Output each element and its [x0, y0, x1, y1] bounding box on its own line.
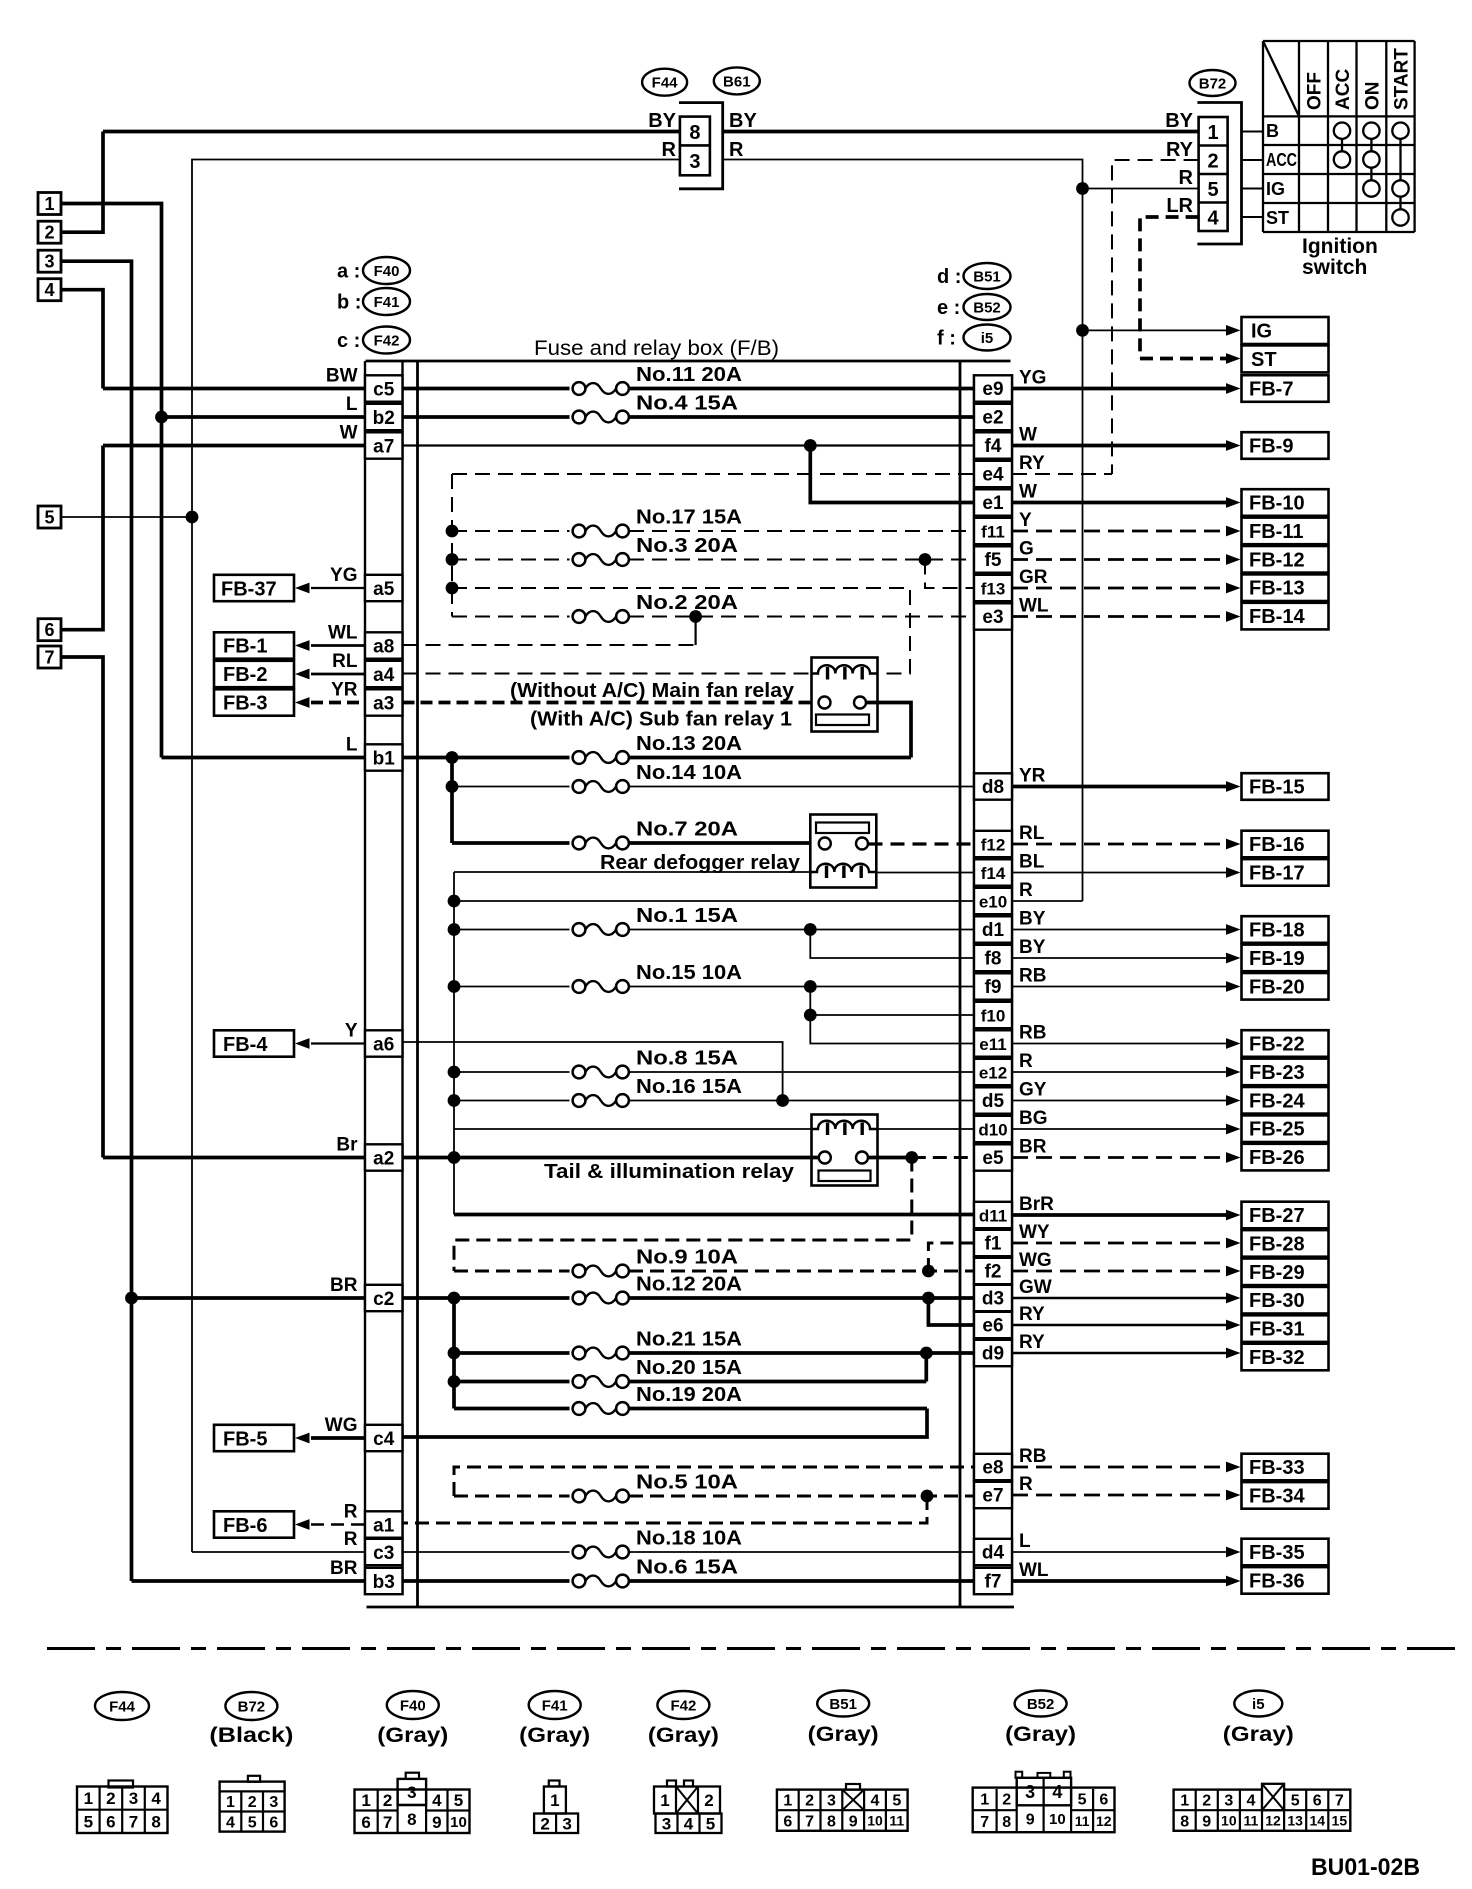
svg-text:a5: a5 — [373, 579, 395, 600]
right strip cell e12 — [974, 1059, 1012, 1085]
left strip cell a8 — [365, 632, 403, 658]
svg-text:Fuse and relay box (F/B): Fuse and relay box (F/B) — [534, 337, 779, 360]
wire a4 to FB-2 — [311, 673, 365, 676]
svg-text:B: B — [1266, 121, 1279, 141]
connector pinout F40 (Gray) — [387, 1691, 439, 1719]
svg-text:d4: d4 — [982, 1543, 1005, 1564]
svg-text:1: 1 — [660, 1791, 669, 1810]
svg-text:d10: d10 — [978, 1121, 1007, 1140]
connector B61 shell bracket — [679, 103, 723, 189]
svg-text:YR: YR — [1019, 766, 1046, 787]
right strip cell d5 — [974, 1087, 1012, 1113]
right strip cell f13 — [974, 575, 1012, 601]
svg-text:BY: BY — [1019, 937, 1046, 958]
right strip cell e8 — [974, 1454, 1012, 1480]
wire to FB box at y=1243 — [1012, 1242, 1228, 1245]
left strip cell a3 — [365, 689, 403, 715]
svg-text:FB-31: FB-31 — [1249, 1319, 1305, 1341]
right strip cell d9 — [974, 1340, 1012, 1366]
node 7 (off-page connector box 7) — [38, 646, 61, 668]
wire defogger coil left stub — [454, 871, 810, 873]
FB-2 box — [214, 661, 294, 687]
wire d11 BrR row — [454, 1213, 974, 1217]
svg-text:f2: f2 — [985, 1262, 1002, 1283]
svg-text:7: 7 — [44, 648, 54, 668]
svg-text:B52: B52 — [1027, 1696, 1055, 1713]
svg-text:4: 4 — [1052, 1782, 1062, 1802]
connector pinout F41 (Gray) — [529, 1691, 581, 1719]
svg-text:4: 4 — [151, 1789, 161, 1808]
svg-text:GW: GW — [1019, 1277, 1052, 1298]
wire to FB box at y=986.5 — [1012, 986, 1228, 988]
svg-text:b1: b1 — [373, 749, 396, 770]
svg-text:5: 5 — [1291, 1793, 1300, 1810]
svg-text:e8: e8 — [982, 1458, 1003, 1479]
right strip cell e6 — [974, 1312, 1012, 1338]
wire e5 dashed — [912, 1156, 974, 1159]
svg-text:FB-37: FB-37 — [221, 579, 277, 601]
svg-text:FB-10: FB-10 — [1249, 493, 1305, 515]
wire to FB box at y=929.5 — [1012, 929, 1228, 931]
svg-text:FB-3: FB-3 — [223, 692, 267, 714]
svg-text:e5: e5 — [982, 1148, 1004, 1169]
svg-text:2: 2 — [1002, 1792, 1011, 1809]
svg-text:No.12 20A: No.12 20A — [636, 1274, 742, 1296]
right strip cell f9 — [974, 973, 1012, 999]
svg-text:1: 1 — [44, 194, 54, 214]
svg-text:d8: d8 — [982, 777, 1004, 798]
svg-text:No.1 15A: No.1 15A — [636, 905, 738, 927]
junction dot No.5 to e7 — [921, 1490, 934, 1503]
svg-text:e7: e7 — [982, 1486, 1003, 1507]
left strip cell c4 — [365, 1425, 403, 1451]
svg-text:L: L — [346, 394, 358, 415]
svg-text:9: 9 — [1026, 1812, 1035, 1829]
right strip cell e10 — [974, 888, 1012, 914]
right strip cell e9 — [974, 375, 1012, 401]
svg-text:G: G — [1019, 539, 1034, 560]
svg-text:ACC: ACC — [1266, 150, 1297, 170]
svg-text:F41: F41 — [542, 1697, 568, 1714]
svg-text:GY: GY — [1019, 1080, 1047, 1101]
svg-text:FB-26: FB-26 — [1249, 1147, 1305, 1169]
svg-text:RY: RY — [1019, 1332, 1045, 1353]
svg-text:2: 2 — [106, 1789, 115, 1808]
svg-text:2: 2 — [1208, 150, 1219, 172]
connector pinout B52 (Gray) — [1015, 1691, 1067, 1717]
svg-text:No.5 10A: No.5 10A — [636, 1472, 738, 1494]
wire R feed into c3 — [192, 1551, 365, 1553]
svg-text:YG: YG — [1019, 368, 1046, 389]
svg-text:FB-9: FB-9 — [1249, 436, 1293, 458]
wire to FB box at y=1100.5 — [1012, 1100, 1228, 1102]
ignition switch contact circles — [1334, 151, 1350, 167]
svg-text:Ignition: Ignition — [1302, 235, 1378, 258]
left strip cell c5 — [365, 375, 403, 401]
svg-text:4: 4 — [44, 280, 54, 300]
right strip cell f5 — [974, 546, 1012, 572]
svg-text:a6: a6 — [373, 1035, 394, 1056]
svg-text:11: 11 — [889, 1813, 904, 1829]
wire L feed into b2 — [162, 415, 366, 419]
wire e10 to R net — [1012, 900, 1083, 902]
fuse No.4 15A row — [403, 415, 570, 419]
svg-text:LR: LR — [1166, 195, 1193, 217]
svg-text:d1: d1 — [982, 920, 1005, 941]
left strip cell c3 — [365, 1539, 403, 1565]
right strip cell f12 — [974, 831, 1012, 857]
svg-text:5: 5 — [1208, 179, 1219, 201]
junction dot No.12 to e6 — [922, 1292, 935, 1305]
junction dot f10 branch — [804, 1009, 817, 1022]
svg-text:5: 5 — [1078, 1792, 1087, 1809]
wire No.1 drop to f8 — [810, 930, 974, 959]
junction dot R to IG — [1076, 324, 1089, 337]
wire from box 1 to b2/b1 vertical — [61, 204, 162, 758]
wire BY battery feed (left of F44) — [103, 130, 680, 134]
svg-text:WL: WL — [1019, 596, 1049, 617]
ST box — [1242, 345, 1329, 372]
right strip cell e1 — [974, 489, 1012, 515]
wire L feed into b1 — [162, 756, 366, 760]
svg-text:3: 3 — [827, 1793, 836, 1810]
node 3 (off-page connector box 3) — [38, 250, 61, 272]
svg-text:e :: e : — [937, 297, 960, 319]
svg-text:F42: F42 — [374, 332, 400, 349]
right strip cell e5 — [974, 1144, 1012, 1170]
svg-text:e3: e3 — [982, 607, 1003, 628]
svg-text:12: 12 — [1265, 1813, 1281, 1829]
svg-text:FB-33: FB-33 — [1249, 1457, 1305, 1479]
svg-text:7: 7 — [1335, 1793, 1344, 1810]
svg-text:f12: f12 — [981, 836, 1006, 855]
junction dots fuses 21/20 — [448, 1347, 461, 1360]
wire to FB box at y=1215 — [1012, 1213, 1228, 1217]
junction dot box5/R net — [186, 511, 199, 524]
svg-text:c2: c2 — [373, 1289, 394, 1310]
svg-text:3: 3 — [407, 1783, 416, 1802]
fuse No.9 10A row dashed — [454, 1270, 570, 1273]
svg-text:5: 5 — [84, 1812, 93, 1831]
wire to FB box at y=1353 — [1012, 1352, 1228, 1354]
svg-text:a8: a8 — [373, 637, 394, 658]
svg-text:2: 2 — [704, 1791, 713, 1810]
svg-text:(Gray): (Gray) — [519, 1724, 590, 1747]
svg-text:BY: BY — [1165, 110, 1193, 132]
connector pinout F44 — [95, 1692, 149, 1720]
wire RY dashed from B72 pin2 down to e4 — [1112, 160, 1199, 474]
svg-text:e2: e2 — [982, 408, 1003, 429]
svg-text:2: 2 — [1202, 1793, 1211, 1810]
svg-text:2: 2 — [805, 1793, 814, 1810]
wire from box 6 up to a7 W feed — [61, 446, 103, 630]
wire d10 row to tail relay coil — [454, 1128, 812, 1130]
FB-37 box — [214, 575, 294, 601]
wire to FB box at y=786.5 — [1012, 785, 1228, 789]
connector pinout B51 (Gray) — [817, 1691, 869, 1717]
svg-text:11: 11 — [1075, 1813, 1090, 1829]
ignition contact link lines — [1341, 139, 1343, 151]
svg-text:f :: f : — [937, 328, 956, 350]
connector B72 pin box (pins 1,2,5,4) — [1199, 117, 1228, 231]
svg-text:RB: RB — [1019, 1446, 1046, 1467]
svg-text:BU01-02B: BU01-02B — [1311, 1854, 1420, 1881]
svg-text:i5: i5 — [981, 330, 994, 347]
svg-text:7: 7 — [805, 1813, 814, 1830]
svg-text:1: 1 — [1208, 122, 1219, 144]
svg-text:BR: BR — [1019, 1137, 1047, 1158]
svg-text:2: 2 — [540, 1814, 549, 1833]
FB-3 box — [214, 689, 294, 715]
svg-text:WY: WY — [1019, 1222, 1050, 1243]
svg-text:No.19 20A: No.19 20A — [636, 1384, 742, 1406]
svg-text:10: 10 — [450, 1814, 467, 1831]
wire to FB box at y=1325 — [1012, 1324, 1228, 1326]
fuse No.16 15A row — [454, 1100, 570, 1102]
svg-text:FB-12: FB-12 — [1249, 549, 1305, 571]
svg-text:d9: d9 — [982, 1344, 1004, 1365]
svg-text:(Gray): (Gray) — [808, 1723, 879, 1746]
wire from box 7 down to a2 Br feed — [61, 657, 103, 1158]
wire to FB box at y=1157.5 — [1012, 1156, 1228, 1159]
svg-text:FB-34: FB-34 — [1249, 1485, 1305, 1507]
wire to FB box at y=1129 — [1012, 1128, 1228, 1130]
wire a3 to FB-3 dashed — [311, 701, 365, 705]
interior feed vertical (a2 Br net) — [453, 872, 455, 1215]
separator dash-dot line — [47, 1647, 1460, 1650]
wire No.12 drop to e6 — [928, 1298, 974, 1325]
svg-text:F44: F44 — [109, 1698, 136, 1715]
svg-text:B51: B51 — [829, 1696, 857, 1713]
svg-text:c4: c4 — [373, 1429, 395, 1450]
svg-text:d3: d3 — [982, 1289, 1004, 1310]
svg-text:(Gray): (Gray) — [648, 1724, 719, 1747]
svg-text:WG: WG — [325, 1415, 358, 1436]
svg-text:9: 9 — [432, 1813, 441, 1832]
fuse No.13 20A row — [403, 756, 570, 760]
left strip cell a7 — [365, 432, 403, 458]
svg-text:BrR: BrR — [1019, 1194, 1054, 1215]
svg-text:d11: d11 — [979, 1207, 1007, 1226]
wire R (right of B61) — [723, 160, 1083, 902]
fuse No.2 20A row dashed — [452, 616, 570, 618]
svg-text:BY: BY — [729, 110, 757, 132]
fuse No.15 10A row — [454, 986, 570, 988]
right strip cell e3 — [974, 603, 1012, 629]
svg-text:(Gray): (Gray) — [377, 1724, 448, 1747]
wire defogger contact to f12 dashed — [869, 842, 975, 845]
svg-text:8: 8 — [827, 1813, 836, 1830]
svg-text:IG: IG — [1251, 321, 1272, 343]
svg-text:5: 5 — [44, 508, 54, 528]
junction dot No.1 to f8 — [804, 923, 817, 936]
node 4 (off-page connector box 4) — [38, 279, 61, 301]
svg-text:No.16 15A: No.16 15A — [636, 1076, 742, 1098]
right strip cell f8 — [974, 945, 1012, 971]
svg-text:FB-2: FB-2 — [223, 664, 267, 686]
svg-text:F41: F41 — [374, 294, 400, 311]
FB-27 to FB-32 boxes — [1242, 1202, 1329, 1229]
right strip cell f11 — [974, 518, 1012, 544]
fuse No.20 15A row — [454, 1380, 570, 1384]
fuse No.8 15A row — [454, 1071, 570, 1073]
FB-10 to FB-14 boxes — [1242, 489, 1329, 516]
wire W a7 to f4 row — [403, 444, 975, 446]
wire to IG box — [1083, 329, 1227, 331]
right strip cell f14 — [974, 859, 1012, 885]
junction dot b1 feed — [446, 751, 459, 764]
svg-text:B51: B51 — [973, 268, 1001, 285]
wire No.5 output to a1 dashed — [403, 1496, 928, 1523]
left strip cell a2 — [365, 1144, 403, 1170]
wire dashed tail output to No.9 feed — [454, 1158, 912, 1272]
svg-text:b :: b : — [337, 292, 361, 314]
wire to FB box at y=1495 — [1012, 1494, 1228, 1497]
svg-text:FB-36: FB-36 — [1249, 1570, 1305, 1592]
FB-35 FB-36 boxes — [1242, 1539, 1329, 1566]
wire f10 branch — [810, 1014, 974, 1016]
svg-text:6: 6 — [361, 1813, 370, 1832]
connector F44 ellipse — [642, 69, 687, 96]
svg-text:6: 6 — [269, 1814, 278, 1831]
svg-text:FB-4: FB-4 — [223, 1034, 268, 1056]
connector pinout F42 (Gray) — [657, 1691, 709, 1719]
svg-text:FB-28: FB-28 — [1249, 1233, 1305, 1255]
wire from box 2 up to BY feed — [61, 132, 103, 233]
svg-text:B52: B52 — [973, 299, 1001, 316]
svg-text:4: 4 — [432, 1791, 442, 1810]
junction dot No.9 to f1 — [922, 1265, 935, 1278]
svg-text:c :: c : — [337, 330, 360, 352]
svg-text:No.14 10A: No.14 10A — [636, 762, 742, 784]
fuse and relay box outline — [366, 360, 1011, 363]
FB-4 box — [214, 1030, 294, 1056]
svg-text:14: 14 — [1309, 1813, 1325, 1829]
wire a6 to FB-4 — [311, 1042, 365, 1044]
svg-text:10: 10 — [1221, 1813, 1237, 1829]
IG box — [1242, 317, 1329, 344]
svg-text:No.7 20A: No.7 20A — [636, 819, 738, 841]
svg-text:BY: BY — [1019, 909, 1046, 930]
svg-text:FB-5: FB-5 — [223, 1428, 267, 1450]
svg-text:ST: ST — [1251, 349, 1277, 371]
right strip cell e4 — [974, 461, 1012, 487]
svg-text:1: 1 — [84, 1789, 93, 1808]
svg-text:No.2 20A: No.2 20A — [636, 592, 738, 614]
svg-text:FB-20: FB-20 — [1249, 976, 1305, 998]
svg-text:f5: f5 — [985, 550, 1002, 571]
svg-text:R: R — [1019, 1051, 1033, 1072]
node 6 (off-page connector box 6) — [38, 619, 61, 641]
right connector strip rails — [973, 374, 975, 1595]
svg-text:R: R — [1179, 167, 1194, 189]
svg-text:FB-23: FB-23 — [1249, 1062, 1305, 1084]
svg-text:B72: B72 — [238, 1698, 266, 1715]
svg-text:1: 1 — [226, 1794, 235, 1811]
svg-text:No.11 20A: No.11 20A — [636, 364, 742, 386]
wire from box 5 to R net junction — [61, 516, 192, 518]
svg-text:3: 3 — [1025, 1782, 1035, 1802]
svg-text:BR: BR — [330, 1275, 358, 1296]
svg-text:YR: YR — [331, 680, 358, 701]
svg-text:9: 9 — [849, 1813, 858, 1830]
svg-text:d :: d : — [937, 266, 961, 288]
svg-text:WL: WL — [328, 623, 358, 644]
svg-text:BR: BR — [330, 1558, 358, 1579]
svg-text:BW: BW — [326, 366, 358, 387]
svg-text:R: R — [729, 139, 744, 161]
svg-text:3: 3 — [562, 1814, 571, 1833]
svg-text:f4: f4 — [985, 436, 1002, 457]
svg-text:4: 4 — [1246, 1793, 1255, 1810]
svg-text:BY: BY — [648, 110, 676, 132]
svg-text:RB: RB — [1019, 1023, 1046, 1044]
c2 feed vertical for fuses 21/20/19 — [452, 1298, 456, 1409]
svg-text:switch: switch — [1302, 256, 1367, 279]
fuse No.21 15A row — [454, 1351, 570, 1355]
svg-text:RB: RB — [1019, 966, 1046, 987]
wire to FB box at y=872.5 — [1012, 872, 1228, 874]
svg-text:BL: BL — [1019, 852, 1045, 873]
svg-text:e10: e10 — [979, 893, 1007, 912]
wire W drop to e1 — [810, 446, 974, 503]
svg-text:f11: f11 — [981, 523, 1005, 542]
svg-text:(Black): (Black) — [209, 1724, 293, 1747]
svg-text:f14: f14 — [981, 864, 1006, 883]
wire a2 Br row to tail relay contact — [403, 1156, 819, 1160]
svg-text:5: 5 — [892, 1793, 901, 1810]
svg-text:7: 7 — [980, 1814, 989, 1831]
svg-text:W: W — [1019, 482, 1037, 503]
svg-text:8: 8 — [689, 122, 700, 144]
svg-text:FB-14: FB-14 — [1249, 606, 1305, 628]
svg-text:No.21 15A: No.21 15A — [636, 1329, 742, 1351]
ignition switch contact table — [1263, 41, 1415, 232]
right strip cell d1 — [974, 916, 1012, 942]
svg-text:FB-18: FB-18 — [1249, 920, 1305, 942]
wire a8 to FB-1 — [311, 644, 365, 647]
svg-text:L: L — [1019, 1531, 1031, 1552]
svg-text:3: 3 — [44, 252, 54, 272]
left strip cell c2 — [365, 1285, 403, 1311]
svg-text:3: 3 — [689, 151, 700, 173]
relay: Rear defogger relay — [810, 815, 876, 888]
left strip cell a6 — [365, 1030, 403, 1056]
svg-text:FB-30: FB-30 — [1249, 1290, 1305, 1312]
right strip cell e7 — [974, 1482, 1012, 1508]
left strip cell b2 — [365, 404, 403, 430]
svg-text:No.20 15A: No.20 15A — [636, 1357, 742, 1379]
svg-text:W: W — [1019, 425, 1037, 446]
relay: (Without A/C) Main fan relay / (With A/C) Sub fan relay 1 — [812, 658, 878, 732]
wire BR feed into b3 — [132, 1579, 366, 1583]
FB-22 to FB-26 boxes — [1242, 1030, 1329, 1057]
right strip cell f7 — [974, 1568, 1012, 1594]
left connector strip rails — [364, 361, 366, 1595]
svg-text:9: 9 — [1202, 1813, 1211, 1830]
svg-text:4: 4 — [1208, 207, 1220, 229]
wire LR dashed from B72 pin4 down to ST — [1140, 217, 1199, 359]
svg-text:BG: BG — [1019, 1108, 1048, 1129]
connector B61 ellipse — [714, 67, 760, 94]
wire No.15 drop to f10 and e11 — [810, 987, 974, 1044]
wire to FB box at y=1271 — [1012, 1270, 1228, 1273]
svg-text:8: 8 — [1180, 1813, 1189, 1830]
svg-text:15: 15 — [1332, 1813, 1348, 1829]
svg-text:7: 7 — [129, 1812, 138, 1831]
right strip cell d8 — [974, 773, 1012, 799]
svg-text:f1: f1 — [985, 1234, 1002, 1255]
